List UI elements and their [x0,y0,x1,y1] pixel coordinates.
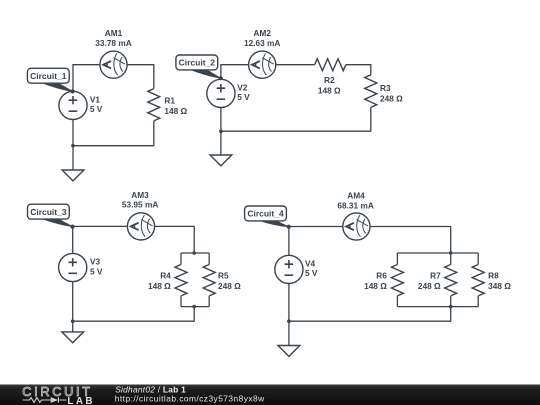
svg-text:5 V: 5 V [90,104,103,114]
svg-text:R1: R1 [164,96,175,106]
net flag Circuit_3 [28,204,75,229]
svg-text:AM2: AM2 [253,28,271,38]
svg-text:33.78 mA: 33.78 mA [95,38,131,48]
svg-text:53.95 mA: 53.95 mA [122,200,158,210]
resistor R6 [391,265,403,296]
svg-text:AM1: AM1 [105,28,123,38]
wire [73,307,195,322]
wire [180,296,182,307]
wire top bar [181,252,209,254]
wire [221,107,371,131]
wire [180,253,182,265]
net flag Circuit_4 [245,206,291,229]
voltage source V3 [59,253,87,281]
wire [221,65,249,80]
svg-text:R3: R3 [380,83,391,93]
wire top bar [397,252,478,254]
ammeter AM2 [249,51,276,78]
svg-text:R2: R2 [324,75,335,85]
wire [127,65,154,89]
svg-text:R6: R6 [376,271,387,281]
wire [73,226,128,253]
svg-text:R8: R8 [488,271,499,281]
wire [155,226,195,253]
svg-text:248 Ω: 248 Ω [380,94,403,104]
voltage source V4 [275,255,303,283]
svg-text:AM3: AM3 [131,190,149,200]
svg-text:5 V: 5 V [90,266,103,276]
resistor R4 [175,265,187,296]
wire [288,284,290,322]
wire [289,227,343,256]
ground [278,321,300,356]
node [71,144,75,148]
svg-text:248 Ω: 248 Ω [418,281,441,291]
node [219,129,223,133]
wire [396,296,398,307]
ground [62,146,84,181]
svg-text:http://circuitlab.com/cz3y573n: http://circuitlab.com/cz3y573n8yx8w [115,393,265,403]
node [449,305,453,309]
svg-text:148 Ω: 148 Ω [148,281,171,291]
svg-text:AM4: AM4 [347,190,365,200]
ground [210,131,232,166]
svg-text:R4: R4 [160,271,171,281]
svg-text:Circuit_4: Circuit_4 [247,209,284,219]
CircuitLab logo [22,385,95,405]
net flag Circuit_1 [27,68,74,93]
wire [477,253,479,265]
voltage source V1 [59,91,87,119]
wire bottom bar [181,306,209,308]
wire [208,253,210,265]
wire [73,121,154,146]
voltage source V2 [207,79,235,107]
svg-text:Circuit_1: Circuit_1 [30,71,67,81]
node [449,251,453,255]
wire [72,282,74,322]
svg-text:148 Ω: 148 Ω [164,106,187,116]
node [192,251,196,255]
footer bar [0,385,540,405]
ground [62,321,84,343]
wire bottom bar [397,306,478,308]
resistor R1 [148,89,160,121]
svg-text:V4: V4 [305,259,316,269]
resistor R8 [472,265,484,296]
wire [370,227,451,254]
svg-text:V2: V2 [237,83,248,93]
wire [477,296,479,307]
svg-text:148 Ω: 148 Ω [364,281,387,291]
wire [289,307,451,322]
svg-text:5 V: 5 V [237,92,250,102]
resistor R5 [203,265,215,296]
resistor R7 [445,265,457,296]
wire [396,253,398,265]
svg-text:R5: R5 [218,271,229,281]
ammeter AM1 [100,51,127,78]
wire [276,64,315,66]
svg-text:V3: V3 [90,257,101,267]
node [192,305,196,309]
svg-text:248 Ω: 248 Ω [218,281,241,291]
svg-text:148 Ω: 148 Ω [318,86,341,96]
wire [450,296,452,307]
svg-text:68.31 mA: 68.31 mA [337,200,373,210]
svg-text:Circuit_2: Circuit_2 [179,58,216,68]
wire [450,253,452,265]
ammeter AM3 [127,213,154,240]
svg-text:348 Ω: 348 Ω [488,281,511,291]
wire [208,296,210,307]
svg-text:12.63 mA: 12.63 mA [244,38,280,48]
resistor R2 [315,59,346,71]
resistor R3 [365,75,377,108]
svg-text:R7: R7 [430,271,441,281]
svg-text:5 V: 5 V [305,268,318,278]
wire [346,65,371,75]
wire [73,65,100,92]
svg-text:Circuit_3: Circuit_3 [30,207,67,217]
net flag Circuit_2 [176,55,223,80]
svg-text:LAB: LAB [67,396,95,405]
ammeter AM4 [343,213,370,240]
node [71,319,75,323]
wire [220,108,222,132]
node [287,319,291,323]
wire [72,120,74,146]
svg-text:V1: V1 [90,95,101,105]
